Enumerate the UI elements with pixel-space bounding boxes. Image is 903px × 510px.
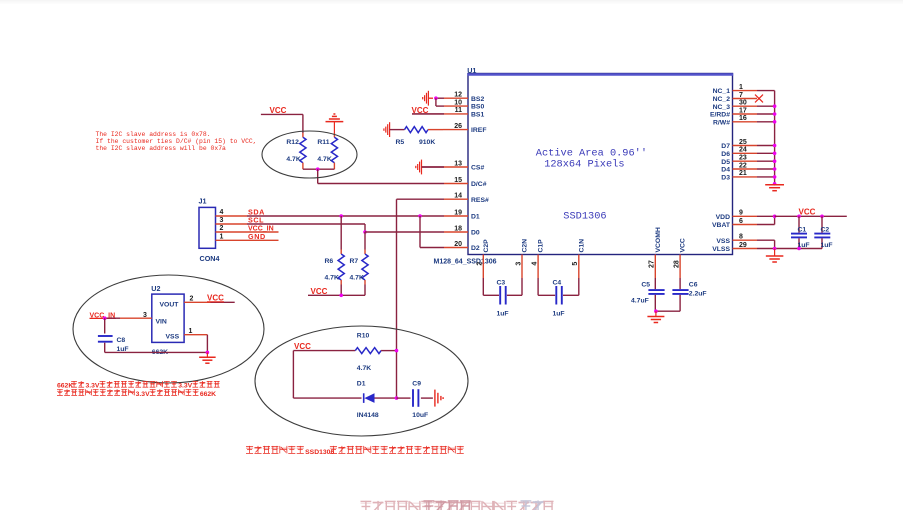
svg-text:C6: C6 bbox=[689, 282, 698, 289]
power port VCC top bbox=[270, 106, 287, 115]
svg-text:VOUT: VOUT bbox=[160, 301, 180, 308]
svg-text:4.7uF: 4.7uF bbox=[631, 298, 649, 305]
node SDA to R6 bbox=[339, 214, 343, 218]
svg-text:3: 3 bbox=[220, 217, 224, 224]
node R10 junction bbox=[395, 349, 399, 353]
U1 pin 8 VSS bbox=[716, 234, 774, 245]
node bus junction y153 bbox=[773, 152, 777, 156]
U1 pin 23 D5 bbox=[721, 155, 774, 166]
U1 pin 1 NC_1 bbox=[713, 84, 775, 95]
capacitor C5 bbox=[631, 278, 665, 311]
U1 pin 11 BS1 bbox=[412, 107, 484, 118]
power port VCC at U2 VOUT bbox=[207, 294, 224, 303]
svg-text:10: 10 bbox=[454, 99, 462, 106]
svg-text:M128_64_SSD1306: M128_64_SSD1306 bbox=[434, 258, 497, 265]
svg-text:26: 26 bbox=[454, 123, 462, 130]
J1 reference designator bbox=[199, 197, 207, 206]
svg-text:VLSS: VLSS bbox=[712, 246, 730, 253]
svg-text:28: 28 bbox=[674, 260, 681, 268]
svg-text:C9: C9 bbox=[412, 381, 421, 388]
svg-text:17: 17 bbox=[739, 107, 747, 114]
regulator U2 body bbox=[152, 294, 184, 342]
U1 pin 14 RES# bbox=[444, 193, 489, 204]
power port VCC reset bbox=[294, 342, 311, 351]
net label VCC_IN bbox=[90, 312, 117, 319]
resistor R6 bbox=[325, 250, 345, 285]
J1 pin 2 VCC_IN bbox=[216, 225, 279, 232]
svg-text:C5: C5 bbox=[641, 282, 650, 289]
svg-text:SSD1306: SSD1306 bbox=[563, 210, 606, 222]
svg-text:C1N: C1N bbox=[578, 239, 585, 253]
capacitor C1 bbox=[791, 216, 810, 249]
U1 pin 12 BS2 bbox=[436, 92, 484, 103]
wire SCL net J1 to column bbox=[247, 224, 365, 232]
U1 pin 29 VLSS bbox=[712, 242, 774, 253]
svg-text:22: 22 bbox=[739, 162, 747, 169]
svg-text:910K: 910K bbox=[419, 139, 435, 146]
svg-text:9: 9 bbox=[739, 210, 743, 217]
svg-text:U1: U1 bbox=[467, 66, 476, 75]
svg-text:6: 6 bbox=[739, 218, 743, 225]
svg-text:4.7K: 4.7K bbox=[357, 365, 371, 372]
svg-text:20: 20 bbox=[454, 241, 462, 248]
U1 pin 2 C2P bbox=[477, 239, 490, 278]
svg-text:13: 13 bbox=[454, 160, 462, 167]
svg-text:27: 27 bbox=[649, 260, 656, 268]
node bus junction y169 bbox=[773, 167, 777, 171]
svg-text:3.3V: 3.3V bbox=[178, 383, 192, 390]
ground at pin 12 BS2 bbox=[423, 91, 433, 106]
svg-text:C2: C2 bbox=[821, 227, 830, 234]
wire VCC to R10 bbox=[293, 350, 355, 352]
capacitor C4 bbox=[538, 278, 579, 318]
ground at pin 13 CS# bbox=[416, 160, 444, 175]
wire R10 to RES# column bbox=[381, 350, 396, 352]
svg-text:RES#: RES# bbox=[471, 197, 489, 204]
note I2C address text bbox=[96, 131, 257, 152]
U1 pin 27 VCOMH bbox=[649, 227, 662, 278]
svg-text:12: 12 bbox=[454, 92, 462, 99]
node bus junction y145 bbox=[773, 144, 777, 148]
svg-text:VCC: VCC bbox=[799, 208, 816, 217]
U1 pin 17 E/RD# bbox=[710, 107, 775, 118]
svg-text:2.2uF: 2.2uF bbox=[689, 290, 707, 297]
U2 pin name VSS bbox=[166, 333, 180, 340]
U1 pin 30 NC_3 bbox=[713, 100, 775, 111]
U2 pin 3 VIN wire bbox=[105, 312, 152, 319]
svg-text:R7: R7 bbox=[350, 258, 359, 265]
svg-text:C1P: C1P bbox=[538, 239, 545, 253]
svg-text:C1: C1 bbox=[798, 227, 807, 234]
svg-text:CS#: CS# bbox=[471, 165, 484, 172]
U2 pin name VOUT bbox=[160, 301, 180, 308]
U2 pin name VIN bbox=[156, 319, 167, 326]
node SDA to D2 branch bbox=[418, 214, 422, 218]
svg-text:29: 29 bbox=[739, 242, 747, 249]
clipped title text at bottom edge bbox=[361, 500, 554, 510]
svg-text:NC_3: NC_3 bbox=[713, 104, 731, 111]
svg-text:R5: R5 bbox=[396, 139, 405, 146]
svg-text:2: 2 bbox=[220, 225, 224, 232]
svg-text:VCC: VCC bbox=[680, 238, 687, 252]
svg-text:BS1: BS1 bbox=[471, 112, 484, 119]
op-amp U1 SSD1306 IC body bbox=[467, 74, 733, 255]
power port VCC right rail bbox=[799, 208, 816, 217]
node bus junction y106 bbox=[773, 104, 777, 108]
svg-text:25: 25 bbox=[739, 139, 747, 146]
svg-text:1uF: 1uF bbox=[497, 311, 509, 318]
node C2 top junction bbox=[820, 215, 824, 219]
svg-text:VCC: VCC bbox=[270, 106, 287, 115]
svg-text:C3: C3 bbox=[497, 279, 506, 286]
svg-text:15: 15 bbox=[454, 177, 462, 184]
svg-text:4.7K: 4.7K bbox=[286, 156, 300, 163]
wire diode branch left bbox=[293, 351, 361, 399]
node SCL to R7 bbox=[363, 230, 367, 234]
U2 part value 662K bbox=[152, 349, 168, 356]
U1 text 128x64 Pixels bbox=[544, 159, 624, 171]
U1 pin 5 C1N bbox=[572, 239, 585, 278]
svg-text:D1: D1 bbox=[471, 214, 480, 221]
U2 pin 2 VOUT wire bbox=[184, 295, 235, 302]
resistor R7 bbox=[350, 250, 369, 285]
wire C8 bottom rail bbox=[105, 351, 208, 353]
svg-text:19: 19 bbox=[454, 209, 462, 216]
svg-text:1: 1 bbox=[189, 328, 193, 335]
svg-text:D3: D3 bbox=[721, 175, 730, 182]
svg-text:BS0: BS0 bbox=[471, 104, 484, 111]
svg-text:VSS: VSS bbox=[166, 333, 180, 340]
svg-text:C8: C8 bbox=[117, 337, 126, 344]
U1 part label M128_64_SSD1306 bbox=[434, 258, 497, 265]
svg-text:1: 1 bbox=[739, 84, 743, 91]
node bus junction y176 bbox=[773, 175, 777, 179]
svg-text:1: 1 bbox=[220, 234, 224, 241]
U1 pin 18 D0 bbox=[444, 225, 480, 236]
note text hardware reset bbox=[246, 446, 464, 456]
svg-text:CON4: CON4 bbox=[200, 254, 220, 263]
svg-text:7: 7 bbox=[739, 92, 743, 99]
svg-text:5: 5 bbox=[572, 262, 579, 266]
svg-text:3: 3 bbox=[515, 262, 522, 266]
wire R6 top bbox=[340, 216, 342, 250]
svg-text:8: 8 bbox=[739, 234, 743, 241]
svg-text:VIN: VIN bbox=[156, 319, 167, 326]
svg-text:C2N: C2N bbox=[522, 239, 529, 253]
svg-text:R6: R6 bbox=[325, 258, 334, 265]
wire VSS rail bbox=[775, 248, 822, 250]
wire R7 top bbox=[364, 232, 366, 250]
wire VCC to R12 bbox=[261, 114, 303, 133]
U1 pin 4 C1P bbox=[532, 239, 545, 278]
power port VCC pullup rail bbox=[311, 287, 328, 296]
diode D1 IN4148 bbox=[357, 381, 397, 420]
svg-text:VDD: VDD bbox=[716, 214, 730, 221]
U1 pin 3 C2N bbox=[515, 239, 528, 278]
note text 662K regulator line 2 bbox=[57, 389, 216, 398]
resistor R10 bbox=[355, 333, 381, 373]
node VDD junction bbox=[773, 215, 777, 219]
svg-text:GND: GND bbox=[248, 232, 266, 241]
svg-text:D/C#: D/C# bbox=[471, 181, 487, 188]
svg-text:4.7K: 4.7K bbox=[317, 156, 331, 163]
capacitor C2 bbox=[814, 216, 832, 249]
svg-text:C2P: C2P bbox=[483, 239, 490, 253]
svg-text:10uF: 10uF bbox=[412, 412, 428, 419]
svg-text:IREF: IREF bbox=[471, 127, 486, 134]
svg-text:D4: D4 bbox=[721, 167, 730, 174]
svg-text:R11: R11 bbox=[317, 139, 329, 146]
wire R7 bottom to rail bbox=[364, 285, 366, 296]
svg-text:BS2: BS2 bbox=[471, 96, 484, 103]
U1 pin 10 BS0 bbox=[436, 99, 484, 110]
capacitor C8 bbox=[98, 318, 129, 353]
svg-text:1uF: 1uF bbox=[821, 242, 833, 249]
svg-text:4.7K: 4.7K bbox=[325, 274, 339, 281]
U1 pin 24 D6 bbox=[721, 147, 774, 158]
svg-text:E/RD#: E/RD# bbox=[710, 112, 730, 119]
U1 pin 25 D7 bbox=[721, 139, 774, 150]
svg-text:R12: R12 bbox=[286, 139, 299, 146]
wire BS1 row bbox=[412, 113, 444, 115]
power port VCC at pin 11 BS1 bbox=[412, 106, 429, 115]
capacitor C6 bbox=[656, 278, 707, 311]
resistor R12 bbox=[286, 133, 306, 169]
J1 pin 1 GND bbox=[216, 232, 279, 241]
wire VDD VBAT junction bbox=[774, 216, 776, 224]
node R6 rail junction bbox=[339, 294, 343, 298]
U2 reference designator bbox=[151, 284, 160, 293]
node divider junction bbox=[316, 167, 320, 171]
wire SDA net J1 to pin 19 bbox=[247, 215, 444, 217]
svg-text:VCC: VCC bbox=[294, 342, 311, 351]
svg-text:R10: R10 bbox=[357, 333, 370, 340]
U1 pin 19 D1 bbox=[444, 209, 480, 220]
note text 662K regulator line 1 bbox=[57, 381, 220, 390]
svg-text:VBAT: VBAT bbox=[712, 222, 731, 229]
svg-text:D0: D0 bbox=[471, 230, 480, 237]
U1 pin 26 IREF bbox=[443, 123, 486, 134]
svg-text:2: 2 bbox=[477, 262, 484, 266]
svg-text:NC_1: NC_1 bbox=[713, 88, 731, 95]
svg-text:J1: J1 bbox=[199, 197, 207, 206]
svg-text:SSD1306: SSD1306 bbox=[305, 449, 334, 456]
svg-text:3.3V: 3.3V bbox=[136, 391, 150, 398]
U1 reference designator bbox=[467, 66, 476, 75]
svg-text:D6: D6 bbox=[721, 151, 730, 158]
U1 pin 15 D/C# bbox=[444, 177, 487, 188]
svg-text:662K: 662K bbox=[57, 383, 73, 390]
node BS2/BS0 junction bbox=[434, 96, 438, 100]
U1 text Active Area 0.96'' bbox=[536, 148, 647, 160]
U1 pin 21 D3 bbox=[721, 170, 774, 181]
svg-text:3.3V: 3.3V bbox=[85, 383, 99, 390]
node VSS junction bbox=[773, 247, 777, 251]
wire D2 tie branch bbox=[420, 216, 444, 248]
ellipse around R12 R11 bbox=[262, 131, 357, 178]
svg-text:128x64 Pixels: 128x64 Pixels bbox=[544, 159, 624, 171]
wire VSS VLSS junction bbox=[774, 240, 776, 248]
svg-text:D7: D7 bbox=[721, 143, 730, 150]
U1 pin 28 VCC bbox=[674, 238, 687, 278]
svg-text:NC_2: NC_2 bbox=[713, 96, 731, 103]
svg-text:IN4148: IN4148 bbox=[357, 412, 379, 419]
svg-text:D5: D5 bbox=[721, 159, 730, 166]
node bus junction y161 bbox=[773, 159, 777, 163]
svg-text:VSS: VSS bbox=[716, 238, 730, 245]
wire R6 bottom to rail bbox=[340, 285, 342, 296]
U1 pin 9 VDD bbox=[716, 210, 775, 221]
U1 pin 7 NC_2 bbox=[713, 92, 757, 103]
wire NC data bus vertical bbox=[774, 91, 776, 184]
svg-text:4: 4 bbox=[532, 262, 539, 266]
U1 pin 20 D2 bbox=[444, 241, 480, 252]
svg-text:VCOMH: VCOMH bbox=[655, 227, 662, 252]
J1 label CON4 bbox=[200, 254, 220, 263]
node U2 VSS junction bbox=[206, 351, 210, 355]
node VIN C8 junction bbox=[103, 316, 107, 320]
svg-text:662K: 662K bbox=[200, 391, 216, 398]
connector J1 body bbox=[199, 207, 216, 248]
svg-text:23: 23 bbox=[739, 155, 747, 162]
resistor R5 bbox=[396, 127, 444, 146]
capacitor C3 bbox=[483, 278, 522, 318]
svg-text:4.7K: 4.7K bbox=[350, 274, 364, 281]
svg-text:30: 30 bbox=[739, 100, 747, 107]
ellipse around reset circuit bbox=[255, 326, 468, 436]
node C5 C6 junction bbox=[654, 309, 658, 313]
top page edge shading bbox=[0, 0, 903, 5]
svg-text:U2: U2 bbox=[151, 284, 160, 293]
svg-text:D2: D2 bbox=[471, 245, 480, 252]
wire R12/R11 common node bbox=[303, 168, 335, 170]
svg-text:1uF: 1uF bbox=[553, 311, 565, 318]
svg-text:18: 18 bbox=[454, 225, 462, 232]
wire RES# column bbox=[397, 199, 445, 398]
svg-text:C4: C4 bbox=[553, 279, 562, 286]
J1 pin 3 SCL bbox=[216, 216, 265, 225]
node C1 bottom junction bbox=[797, 247, 801, 251]
ground below C5 bbox=[647, 311, 664, 322]
svg-text:the I2C slave address will be: the I2C slave address will be 0x7a bbox=[96, 145, 227, 152]
node D1 C9 junction bbox=[395, 396, 399, 400]
svg-text:14: 14 bbox=[454, 193, 462, 200]
svg-text:SCL: SCL bbox=[248, 216, 264, 225]
wire VCC rail right bbox=[775, 215, 847, 217]
ground below U2 VSS bbox=[199, 352, 216, 363]
svg-text:21: 21 bbox=[739, 170, 747, 177]
svg-text:3: 3 bbox=[143, 312, 147, 319]
ground at R5 bbox=[384, 122, 405, 137]
svg-text:2: 2 bbox=[190, 295, 194, 302]
svg-text:D1: D1 bbox=[357, 381, 366, 388]
node bus junction y121 bbox=[773, 120, 777, 124]
wire junction to D/C# pin 15 bbox=[318, 169, 444, 183]
capacitor C9 bbox=[397, 381, 433, 420]
no-connect X on pin 7 NC_2 bbox=[755, 95, 763, 103]
wire pullup VCC rail bbox=[308, 294, 365, 296]
U1 pin 6 VBAT bbox=[712, 218, 775, 229]
node bus junction y114 bbox=[773, 112, 777, 116]
svg-text:4: 4 bbox=[220, 209, 224, 216]
wire BS0 to junction bbox=[435, 98, 437, 106]
ground above R11 bbox=[326, 114, 344, 133]
ellipse around U2 circuit bbox=[73, 275, 264, 383]
U1 pin 22 D4 bbox=[721, 162, 774, 173]
wire SCL to pin 18 D0 bbox=[365, 231, 444, 233]
ground below VSS rail bbox=[766, 249, 784, 263]
J1 pin 4 SDA bbox=[216, 208, 265, 217]
svg-text:16: 16 bbox=[739, 115, 747, 122]
node C1 top junction bbox=[797, 215, 801, 219]
U1 pin 16 R/W# bbox=[713, 115, 775, 126]
ground after C9 bbox=[435, 390, 443, 407]
svg-text:R/W#: R/W# bbox=[713, 119, 730, 126]
node bus bottom junction bbox=[773, 182, 777, 186]
U1 pin 13 CS# bbox=[422, 160, 484, 171]
resistor R11 bbox=[317, 133, 337, 169]
svg-text:24: 24 bbox=[739, 147, 747, 154]
svg-text:11: 11 bbox=[455, 107, 463, 114]
U2 pin 1 VSS wire bbox=[184, 328, 207, 353]
U1 text SSD1306 bbox=[563, 210, 606, 222]
ground below NC bus bbox=[765, 184, 784, 191]
